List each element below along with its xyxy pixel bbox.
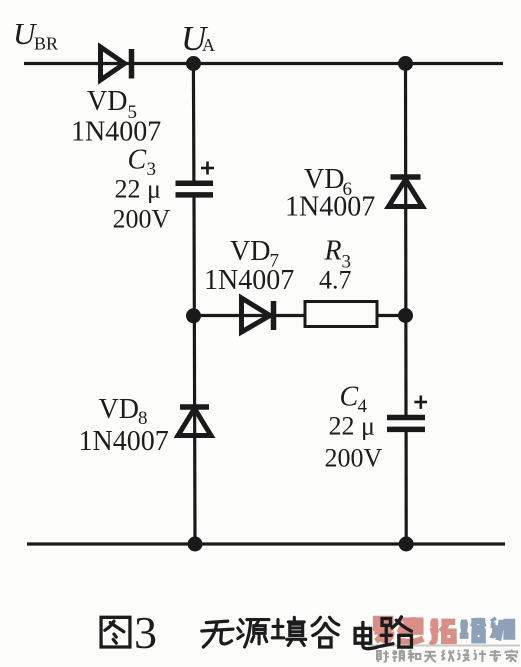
wire left rail lower (C3 bottom plate to bottom rail, through VD8) [194,197,195,544]
wire left rail upper (node A to C3 top plate) [192,64,196,182]
diode VD5 symbol [101,47,132,80]
watermark tagline: char 线 [441,650,453,662]
label VD7 [230,236,279,272]
svg-text:22 μ: 22 μ [115,175,161,204]
svg-text:C: C [340,382,359,413]
watermark logo: char 易 (salmon) [374,619,391,642]
diode VD6 symbol [389,177,423,207]
svg-text:1N4007: 1N4007 [285,192,375,223]
node dot bottom left [188,537,203,552]
node dot bottom right [399,537,414,552]
watermark logo: char 迪 (salmon) [398,617,423,642]
watermark tagline: char 射 [377,650,389,661]
C3 plus polarity mark [201,162,214,175]
caption: char 无 [202,621,233,647]
label R3 [324,236,352,273]
svg-text:A: A [202,35,215,55]
svg-text:BR: BR [34,34,58,54]
wire bottom horizontal [27,542,505,545]
watermark tagline: char 和 [408,650,420,662]
capacitor C4 symbol [387,418,425,430]
label VD8 [99,394,148,429]
diode VD7 symbol [242,298,274,332]
svg-text:4.7: 4.7 [319,266,352,295]
wire top horizontal [24,62,503,65]
svg-text:VD: VD [230,236,270,267]
wire right rail upper (top node to C4 top plate, through VD6) [404,64,408,416]
resistor R3 body [305,302,377,327]
svg-text:200V: 200V [113,205,171,234]
label U_BR [13,16,58,54]
watermark logo: char 拓 (salmon) [430,618,455,642]
watermark tagline: char 设 [457,650,469,661]
caption: char 填 [272,617,305,645]
node dot top right [398,56,413,71]
svg-text:3: 3 [134,607,157,658]
diode VD8 symbol [178,407,211,436]
label VD6 [304,164,352,200]
svg-text:1N4007: 1N4007 [204,265,294,296]
node dot middle right [398,308,413,323]
label C4 [340,382,368,418]
C4 plus polarity mark [414,396,427,409]
watermark underline [368,645,520,647]
svg-text:VD: VD [304,164,344,195]
caption: char 源 [238,620,269,647]
wire middle branch left (node to R3) [193,314,305,317]
svg-text:1N4007: 1N4007 [71,117,161,148]
svg-text:200V: 200V [325,444,383,473]
svg-text:R: R [324,236,342,267]
watermark tagline: char 家 [505,650,517,662]
wire right rail lower (C4 bottom plate to bottom rail) [405,430,408,544]
caption: char 电 [355,622,378,648]
svg-text:22 μ: 22 μ [329,412,375,441]
caption: char 路 [380,617,411,647]
svg-text:VD: VD [87,86,127,117]
caption: char 谷 [312,617,339,647]
watermark logo: char 培 (blue) [460,618,486,641]
label VD5 [87,86,137,123]
label U_A [181,19,215,58]
wire middle branch right (R3 to right rail) [377,314,406,317]
watermark tagline: char 计 [473,650,485,662]
svg-text:1N4007: 1N4007 [79,426,169,457]
caption: char 图 [101,617,130,647]
node A dot (U_A) [186,56,201,71]
svg-text:VD: VD [99,394,139,425]
watermark tagline: char 天 [424,652,436,662]
label C3 [128,145,157,181]
watermark tagline: char 专 [489,650,501,662]
capacitor C3 symbol [176,183,214,195]
node dot middle left [186,308,201,323]
svg-text:C: C [128,145,147,176]
watermark tagline: char 频 [392,650,404,662]
watermark logo: char 训 (blue) [491,618,513,640]
